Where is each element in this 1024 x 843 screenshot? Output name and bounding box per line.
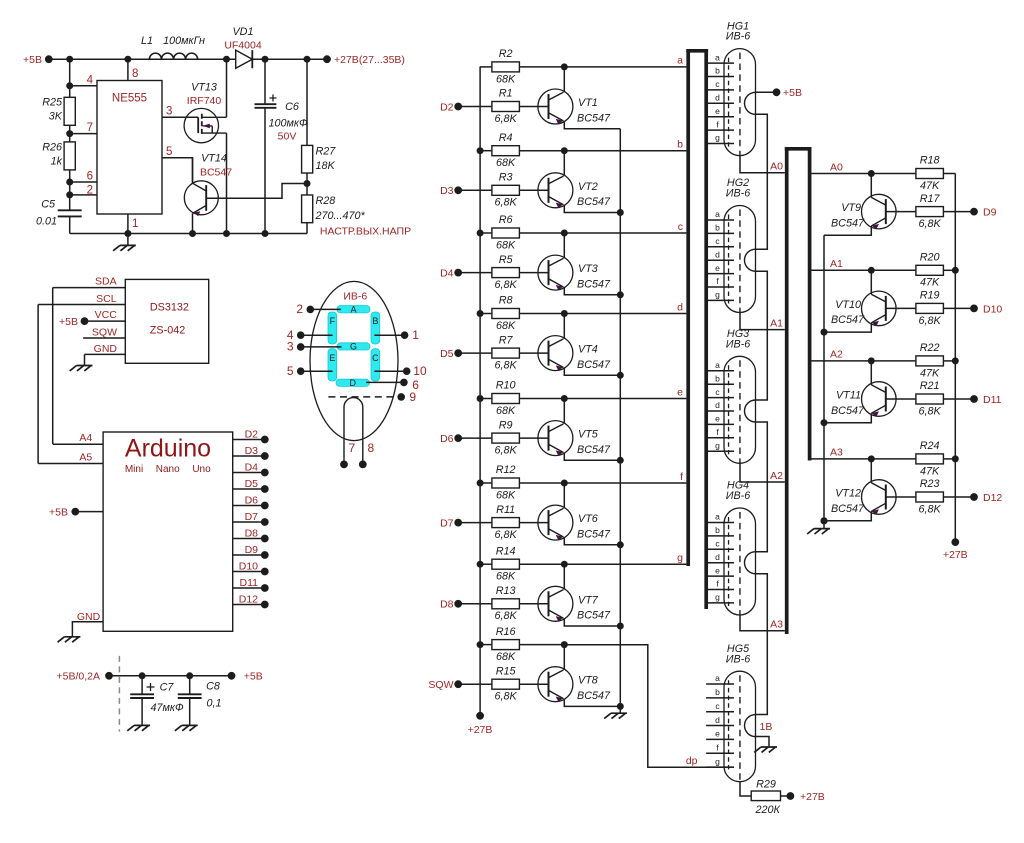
VT12 collector wire [870,459,872,483]
svg-text:R6: R6 [499,214,513,226]
VT7 collector wire [563,564,565,589]
svg-text:R15: R15 [496,665,517,677]
HG2 pin a [708,219,734,221]
svg-text:R7: R7 [499,334,514,346]
svg-text:50V: 50V [278,130,297,142]
HG2 pin c [708,246,734,248]
wire R10 to collector node e [520,398,564,400]
segment F (cyan) [328,312,337,344]
svg-text:A2: A2 [830,349,843,361]
svg-text:A3: A3 [770,619,783,631]
svg-text:68K: 68K [496,157,516,169]
svg-text:BC547: BC547 [577,690,611,702]
svg-text:SCL: SCL [96,293,117,305]
VT2 collector wire [563,151,565,176]
wire net A0 from grid bus to VT9 [812,173,872,175]
resistor R15 6,8K [458,683,491,685]
svg-text:D3: D3 [440,185,454,197]
capacitor C5 0.01 [58,209,82,211]
ground under NE555 [127,234,129,246]
svg-text:R26: R26 [42,141,62,153]
VT14 emitter wire to ground rail [192,213,194,233]
svg-text:A0: A0 [770,161,783,173]
HG3 pin f [708,437,734,439]
transistor VT6 BC547 [538,505,573,540]
svg-text:1: 1 [412,328,419,342]
wire net dp from VT8 to HG5 [564,645,734,768]
node R27/R28 divider [306,173,308,195]
svg-text:D10: D10 [983,303,1002,315]
NE555 pin 7 [70,133,97,135]
svg-text:b: b [715,373,720,383]
resistor R10 68K [480,398,491,400]
svg-text:D8: D8 [245,527,259,539]
svg-text:7: 7 [349,441,356,455]
svg-text:VT5: VT5 [578,429,599,441]
svg-text:g: g [715,133,720,143]
transistor VT12 BC547 [862,480,897,515]
svg-text:+27В: +27В [943,549,968,561]
wire R3 to base of VT2 [520,189,549,191]
segment E (cyan) [328,349,337,381]
HG1 pin b [708,76,734,78]
resistor R1 6,8K [458,106,491,108]
svg-text:100мкФ: 100мкФ [268,117,308,129]
dashed separator line [118,656,120,732]
resistor R20 47K [871,269,915,271]
svg-text:e: e [715,263,720,273]
wire R26 to pins 6,2 and C5 [69,170,71,210]
NE555 pin 4 [70,85,97,87]
svg-text:b: b [677,139,683,151]
wire R11 to base of VT6 [520,522,549,524]
svg-text:D10: D10 [239,560,258,572]
svg-text:a: a [715,52,720,62]
power rail +5B to +27B (top) [49,58,327,60]
Arduino pin D10 [233,571,265,573]
svg-text:ИВ-6: ИВ-6 [343,290,367,302]
svg-text:dp: dp [686,755,698,767]
resistor R29 220K [751,791,780,801]
svg-text:BC547: BC547 [577,528,611,540]
svg-text:VCC: VCC [95,309,118,321]
svg-text:6,8K: 6,8K [495,445,518,457]
VFD tube HG2 IV-6 (envelope) [724,206,756,313]
HG5 pin b [706,697,734,699]
svg-text:47K: 47K [920,465,940,477]
svg-text:BC547: BC547 [577,359,611,371]
IC U1 NE555 box [97,81,162,215]
resistor R11 6,8K [458,522,491,524]
svg-text:BC547: BC547 [577,112,611,124]
HG3 grid wire to bus (net A2) [740,463,785,482]
bottom ground rail [70,233,307,235]
wire +5B filter rail [109,675,232,677]
svg-text:R12: R12 [496,464,516,476]
svg-text:g: g [715,592,720,602]
HG4 grid wire to bus (net A3) [740,615,785,631]
VT13 source wire to ground rail [226,133,228,233]
svg-text:C: C [372,353,379,363]
svg-text:4: 4 [87,75,94,87]
net +5B filter output [228,672,236,680]
svg-text:b: b [715,525,720,535]
svg-text:BC547: BC547 [577,444,611,456]
ground for C8 [175,725,198,730]
NE555 pin 3 [162,116,198,118]
segment C (cyan) [371,349,380,381]
Arduino pin D9 [233,554,265,556]
svg-text:VT8: VT8 [578,675,598,687]
svg-text:6,8K: 6,8K [919,218,942,230]
wire +27B rail to R27 [306,59,308,145]
svg-text:SQW: SQW [428,679,453,691]
svg-text:R9: R9 [499,419,513,431]
svg-text:A: A [350,304,356,314]
HG3 pin a [708,370,734,372]
wire R13 to base of VT7 [520,603,549,605]
resistor R13 6,8K [458,603,491,605]
svg-text:18K: 18K [316,160,336,172]
svg-text:D11: D11 [983,394,1002,406]
svg-text:220К: 220К [755,804,781,816]
VT1 collector wire [563,67,565,92]
svg-text:R21: R21 [920,380,940,392]
svg-text:VT10: VT10 [835,299,861,311]
transistor VT7 BC547 [538,586,573,621]
svg-text:A5: A5 [79,451,92,463]
resistor R5 6,8K [458,272,491,274]
svg-text:BC547: BC547 [577,278,611,290]
wire R1 to base of VT1 [520,106,549,108]
resistor R4 68K [480,150,491,152]
svg-text:270...470*: 270...470* [315,210,366,222]
wire R7 to base of VT4 [520,352,549,354]
svg-text:Nano: Nano [156,464,180,475]
HG4 pin d [708,562,734,564]
svg-text:D: D [350,378,357,388]
svg-text:BC547: BC547 [831,217,865,229]
svg-text:6,8K: 6,8K [495,691,518,703]
resistor R19 6,8K [886,307,916,309]
svg-text:68K: 68K [496,73,516,85]
HG1 pin a [708,62,734,64]
output terminal D9 [944,211,974,213]
NE555 pin 2 [70,194,97,196]
svg-text:+27В(27...35В): +27В(27...35В) [334,54,405,66]
wire net A1 from grid bus to VT10 [812,269,872,271]
resistor R8 68K [480,313,491,315]
svg-text:a: a [715,209,720,219]
HG3 filament cathode arc [745,400,756,422]
wire R2 to collector node a [520,66,564,68]
svg-text:ИВ-6: ИВ-6 [726,490,751,502]
svg-text:g: g [715,440,720,450]
VT9 collector wire [870,174,872,198]
VT5 collector wire [563,399,565,424]
module DS3132 ZS-042 box [125,279,208,363]
transistor VT11 BC547 [862,382,897,417]
segment B (cyan) [371,312,380,344]
NE555 pin 8 [127,59,129,80]
svg-text:R20: R20 [920,252,940,264]
svg-text:47K: 47K [920,277,940,289]
Arduino pin D5 [233,488,265,490]
resistor R18 47K [871,173,915,175]
svg-text:6,8K: 6,8K [495,529,518,541]
svg-text:3: 3 [166,106,172,118]
resistor R22 47K [871,360,915,362]
svg-text:+27В: +27В [800,791,825,803]
transistor VT14 BC547 [184,181,218,215]
svg-text:100мкГн: 100мкГн [163,35,205,47]
HG4 pin e [708,575,734,577]
svg-text:D3: D3 [245,445,259,457]
wire R28 to ground rail [306,223,308,234]
svg-text:E: E [329,353,335,363]
wire R18 to +27B rail [944,173,955,175]
transistor VT3 BC547 [538,255,573,290]
svg-text:R24: R24 [920,440,940,452]
wire segment net c to anode bus [564,232,686,234]
svg-text:a: a [715,512,720,522]
resistor R2 68K [480,66,491,68]
svg-text:d: d [715,93,720,103]
svg-text:NE555: NE555 [112,93,147,105]
inductor L1 100uH [149,53,197,59]
wire SDA to Arduino A4 [52,288,54,445]
wire net A3 from grid bus to VT12 [812,458,872,460]
svg-text:6,8K: 6,8K [919,503,942,515]
VT14 collector wire from pin5 [192,158,194,183]
HG5 pin a [706,683,734,685]
VT2 emitter wire to common ground line [564,205,620,213]
svg-text:3: 3 [287,340,294,354]
svg-text:UF4004: UF4004 [224,40,262,52]
transistor VT8 BC547 [538,667,573,702]
resistor R6 68K [480,232,491,234]
svg-text:R16: R16 [496,626,516,638]
VT3 emitter wire to common ground line [564,287,620,295]
svg-text:VD1: VD1 [232,26,253,38]
svg-text:ИВ-6: ИВ-6 [726,653,751,665]
svg-text:SQW: SQW [92,327,117,339]
svg-text:47мкФ: 47мкФ [150,702,184,714]
svg-text:D5: D5 [245,478,259,490]
svg-text:SDA: SDA [95,276,117,288]
svg-text:68K: 68K [496,405,516,417]
svg-text:R13: R13 [496,585,516,597]
svg-text:VT4: VT4 [578,344,598,356]
svg-text:D12: D12 [239,593,258,605]
svg-text:+27В: +27В [468,724,493,736]
wire R12 to collector node f [520,482,564,484]
resistor R12 68K [480,482,491,484]
svg-text:d: d [715,715,720,725]
VT6 collector wire [563,483,565,508]
VT7 emitter wire to common ground line [564,618,620,626]
wire R5 to base of VT3 [520,272,549,274]
HG2 pin f [708,286,734,288]
resistor R24 47K [871,458,915,460]
svg-text:ИВ-6: ИВ-6 [726,338,751,350]
wire net A2 from grid bus to VT11 [812,360,872,362]
HG5 pin f [706,752,734,754]
svg-text:D2: D2 [245,428,259,440]
HG5 pin c [706,711,734,713]
Arduino pin D3 [233,455,265,457]
svg-text:A3: A3 [830,447,843,459]
svg-text:D4: D4 [245,461,259,473]
pinout filament arch pins 7 and 8 [344,398,363,465]
+27B bus (left, feeds 68K pull-ups) [479,67,481,716]
wire R16 to collector node dp [520,644,564,646]
svg-text:6,8K: 6,8K [495,610,518,622]
HG5 pin g [706,766,734,768]
HG2 pin e [708,273,734,275]
svg-text:+5В: +5В [49,506,68,518]
svg-text:47K: 47K [920,180,940,192]
svg-text:68K: 68K [496,651,516,663]
HG1 filament cathode arc [745,92,756,114]
svg-text:R29: R29 [756,778,776,790]
svg-text:d: d [715,552,720,562]
svg-text:НАСТР.ВЫХ.НАПР: НАСТР.ВЫХ.НАПР [320,226,411,238]
svg-text:Arduino: Arduino [125,435,211,463]
svg-text:R1: R1 [499,88,513,100]
svg-text:BC547: BC547 [831,314,865,326]
net +27B output [323,55,331,63]
svg-text:G: G [350,342,357,352]
svg-text:6,8K: 6,8K [919,405,942,417]
resistor R21 6,8K [886,398,916,400]
svg-text:b: b [715,223,720,233]
wire R24 to +27B rail [944,458,955,460]
wire C5 to ground rail [69,216,71,233]
svg-text:D7: D7 [245,511,259,523]
Arduino pin D7 [233,521,265,523]
svg-text:A1: A1 [770,317,783,329]
svg-text:68K: 68K [496,571,516,583]
svg-text:R27: R27 [316,145,337,157]
resistor R9 6,8K [458,437,491,439]
IV-6 tube pinout diagram (ellipse) [310,281,398,440]
transistor VT1 BC547 [538,89,573,124]
svg-text:VT1: VT1 [578,97,598,109]
svg-text:C7: C7 [160,682,175,694]
svg-text:R18: R18 [920,155,940,167]
grid bus bar (right thick bar) [785,147,789,634]
HG2 pin g [708,299,734,301]
NE555 pin 5 [162,158,193,182]
resistor R27 18K [302,145,313,173]
VT8 emitter wire to common ground line [564,699,620,707]
svg-text:GND: GND [94,343,118,355]
ground for driver emitters [619,706,621,713]
svg-text:+5В/0,2А: +5В/0,2А [57,671,101,683]
svg-text:5: 5 [166,146,172,158]
transistor VT9 BC547 [862,194,897,229]
transistor VT13 IRF740 (N-MOSFET) [184,108,218,142]
HG1 pin f [708,129,734,131]
svg-text:a: a [715,360,720,370]
VFD tube HG5 IV-6 (envelope) [724,671,756,782]
svg-text:5: 5 [287,364,294,378]
svg-text:VT14: VT14 [201,153,227,165]
svg-text:R28: R28 [316,195,336,207]
HG3 pin e [708,423,734,425]
Arduino pin D8 [233,538,265,540]
svg-text:68K: 68K [496,320,516,332]
svg-text:Uno: Uno [192,464,211,475]
wire R20 to +27B rail [944,269,955,271]
VT8 collector wire [563,645,565,670]
svg-text:VT12: VT12 [835,488,861,500]
HG5 pin d [706,725,734,727]
VT9 emitter wire [824,226,871,235]
resistor R23 6,8K [886,496,916,498]
HG4 pin a [708,522,734,524]
svg-text:+5В: +5В [244,671,263,683]
HG4 pin f [708,589,734,591]
svg-text:Mini: Mini [125,464,143,475]
svg-text:A0: A0 [830,161,843,173]
output terminal D10 [944,307,974,309]
HG2 pin d [708,259,734,261]
HG2 filament cathode arc [745,249,756,271]
HG2 pin b [708,232,734,234]
svg-text:VT2: VT2 [578,181,598,193]
HG1 pin e [708,116,734,118]
wire segment net a to anode bus [564,66,686,68]
wire R15 to base of VT8 [520,683,549,685]
svg-text:e: e [715,414,720,424]
svg-text:VT9: VT9 [841,202,861,214]
ground for Arduino [58,637,81,642]
svg-text:VT6: VT6 [578,513,598,525]
svg-text:VT7: VT7 [578,594,599,606]
svg-text:68K: 68K [496,489,516,501]
svg-text:ZS-042: ZS-042 [150,324,185,336]
VT1 emitter wire to common ground line [564,121,620,129]
common emitter ground line [619,129,621,707]
svg-text:D4: D4 [440,268,454,280]
svg-text:c: c [678,221,683,233]
svg-text:b: b [715,66,720,76]
HG4 filament cathode arc [745,552,756,574]
svg-text:1k: 1k [51,155,63,167]
VT11 emitter wire [824,413,871,422]
ground for right emitters [823,521,825,529]
svg-text:2: 2 [296,302,303,316]
svg-text:A1: A1 [830,258,843,270]
svg-text:g: g [715,756,720,766]
VFD tube HG1 IV-6 (envelope) [724,49,756,156]
resistor R16 68K [480,644,491,646]
svg-text:d: d [677,301,683,313]
filament chain wire HG3-HG4 [756,422,768,552]
HG5 pin e [706,738,734,740]
HG1 pin c [708,89,734,91]
svg-text:VT11: VT11 [836,390,861,402]
svg-text:g: g [677,552,683,564]
svg-text:10: 10 [413,364,427,378]
svg-text:D6: D6 [245,494,259,506]
svg-text:3K: 3K [49,111,63,123]
svg-text:A2: A2 [770,470,783,482]
filament chain wire HG2-HG3 [756,271,768,400]
svg-text:1: 1 [132,218,138,230]
